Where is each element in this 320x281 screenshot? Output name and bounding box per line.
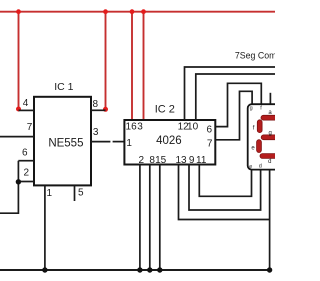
svg-text:1: 1 <box>126 138 132 149</box>
IC1 pin 2 stub <box>18 181 34 183</box>
pin label 3 <box>93 127 99 138</box>
segment f label <box>253 126 255 132</box>
svg-text:16: 16 <box>126 121 138 132</box>
pin label 1 <box>47 188 53 199</box>
IC2 pin 13 wire to display pin c column <box>179 165 270 220</box>
label 4026 <box>156 135 182 147</box>
pin label 11 <box>196 155 207 166</box>
svg-text:7: 7 <box>207 139 213 150</box>
wire V+ to IC1 pin 4 <box>18 12 20 109</box>
svg-text:e: e <box>249 164 252 170</box>
svg-text:IC 1: IC 1 <box>54 81 73 93</box>
segment f <box>257 120 262 133</box>
junction dot rail at IC1 pin8 branch <box>103 9 108 14</box>
svg-text:d: d <box>268 159 271 165</box>
junction dot ground at IC2 pin8 <box>147 267 152 272</box>
display pin label f (top) <box>260 106 262 112</box>
svg-text:NE555: NE555 <box>48 138 83 150</box>
IC2 pin 8 wire to ground <box>149 165 151 271</box>
svg-text:g: g <box>250 106 253 112</box>
IC2 pin 9 wire to display pin d <box>189 165 261 211</box>
junction dot rail at IC1 pin4 branch <box>16 9 21 14</box>
label 7Seg Common Cathode <box>235 50 320 60</box>
svg-text:4026: 4026 <box>156 135 182 147</box>
IC2 pin 12 wire to right edge <box>185 67 276 120</box>
pin label 12 <box>178 121 190 132</box>
segment g <box>261 135 280 140</box>
svg-text:7: 7 <box>27 122 33 133</box>
wire V+ to IC1 pin 8 <box>105 12 107 109</box>
IC1 pin 7 wire to left edge <box>0 136 34 138</box>
IC2 pin 15 wire to ground <box>159 165 161 271</box>
label NE555 <box>48 138 83 150</box>
pin label 2 <box>24 168 30 179</box>
svg-text:3: 3 <box>137 122 143 133</box>
pin label 6 (IC2) <box>207 125 213 136</box>
wire V+ to IC2 pin 16 <box>131 12 133 121</box>
pin label 7 (IC2) <box>207 139 213 150</box>
svg-text:2: 2 <box>139 155 145 166</box>
svg-text:4: 4 <box>23 98 29 109</box>
op IC1 NE555 body <box>34 97 91 186</box>
ground rail <box>0 269 270 271</box>
pin label 7 <box>27 122 33 133</box>
IC2 4026 body <box>124 120 215 165</box>
wire pins 6+2 tied, running to left edge <box>0 161 18 214</box>
junction dot ground at IC1 pin1 <box>42 267 47 272</box>
IC1 pin 5 stub (n/c) <box>74 185 76 201</box>
pin label 8 (IC2) <box>149 155 155 166</box>
IC2 pin 2 wire to ground <box>139 165 141 271</box>
pin label 6 <box>22 148 28 159</box>
segment g label <box>269 130 272 136</box>
pin label 13 <box>175 155 187 166</box>
junction dot rail at IC2 pin3 branch <box>141 9 146 14</box>
pin label 3 (IC2) <box>137 122 143 133</box>
IC2 pin 11 wire to display pin e <box>199 165 251 197</box>
junction dot ground at display common <box>267 267 272 272</box>
svg-text:g: g <box>269 130 272 136</box>
segment d <box>260 154 279 159</box>
IC1 pin 8 stub <box>91 109 106 111</box>
7-segment display U3 body <box>248 104 282 169</box>
segment e label <box>251 146 255 152</box>
svg-text:15: 15 <box>155 155 167 166</box>
segment a <box>261 115 280 120</box>
pin label 16 <box>126 121 138 132</box>
svg-text:2: 2 <box>24 168 30 179</box>
display pin label e (bottom) <box>249 164 252 170</box>
display top pin a stub <box>269 93 271 105</box>
pin label 10 <box>187 121 199 132</box>
svg-text:5: 5 <box>78 187 84 198</box>
display common cathode wire to ground <box>269 170 271 270</box>
IC1 pin 3 stub <box>91 141 110 143</box>
svg-text:11: 11 <box>196 155 207 166</box>
junction dot ground at IC2 pin15 <box>157 267 162 272</box>
svg-text:6: 6 <box>207 125 213 136</box>
svg-text:3: 3 <box>93 127 99 138</box>
pin label 15 <box>155 155 167 166</box>
svg-text:9: 9 <box>189 155 195 166</box>
segment e <box>257 140 262 153</box>
IC2 pin 7 wire to display pin g <box>215 91 252 140</box>
svg-text:6: 6 <box>22 148 28 159</box>
svg-text:IC 2: IC 2 <box>155 104 175 116</box>
wire V+ to IC2 pin 3 <box>143 12 145 121</box>
display pin label d (bottom) <box>259 164 262 170</box>
V+ power rail <box>0 11 275 13</box>
pin label 8 <box>93 99 99 110</box>
IC1 pin 4 stub <box>19 109 35 111</box>
IC2 pin 6 wire to display pin f <box>215 83 261 126</box>
svg-text:7Seg Common Cathode: 7Seg Common Cathode <box>235 50 275 60</box>
IC1 pin 6 stub <box>18 160 34 162</box>
IC2 pin 10 wire to right edge <box>196 74 275 120</box>
junction dot at IC1 pin 4 <box>16 107 21 112</box>
svg-text:d: d <box>259 164 262 170</box>
junction dot rail at IC2 pin16 branch <box>130 9 135 14</box>
svg-text:1: 1 <box>47 188 53 199</box>
junction dot at IC1 pin 8 <box>103 107 108 112</box>
label IC 1 <box>54 81 73 93</box>
pin label 1 (IC2) <box>126 138 132 149</box>
pin label 5 <box>78 187 84 198</box>
pin label 2 (IC2) <box>139 155 145 166</box>
segment a label <box>268 110 272 116</box>
pin label 9 <box>189 155 195 166</box>
svg-text:13: 13 <box>175 155 187 166</box>
junction dot ground at IC2 pin2 <box>137 267 142 272</box>
junction dot at pin 2 <box>16 179 21 184</box>
wire IC1 pin3 to IC2 pin1 <box>113 141 125 143</box>
segment d label <box>268 159 271 165</box>
label IC 2 <box>155 104 175 116</box>
svg-text:8: 8 <box>93 99 99 110</box>
svg-text:10: 10 <box>187 121 199 132</box>
display pin label g (top) <box>250 106 253 112</box>
pin label 4 <box>23 98 29 109</box>
IC1 pin 1 wire to ground <box>44 185 46 270</box>
